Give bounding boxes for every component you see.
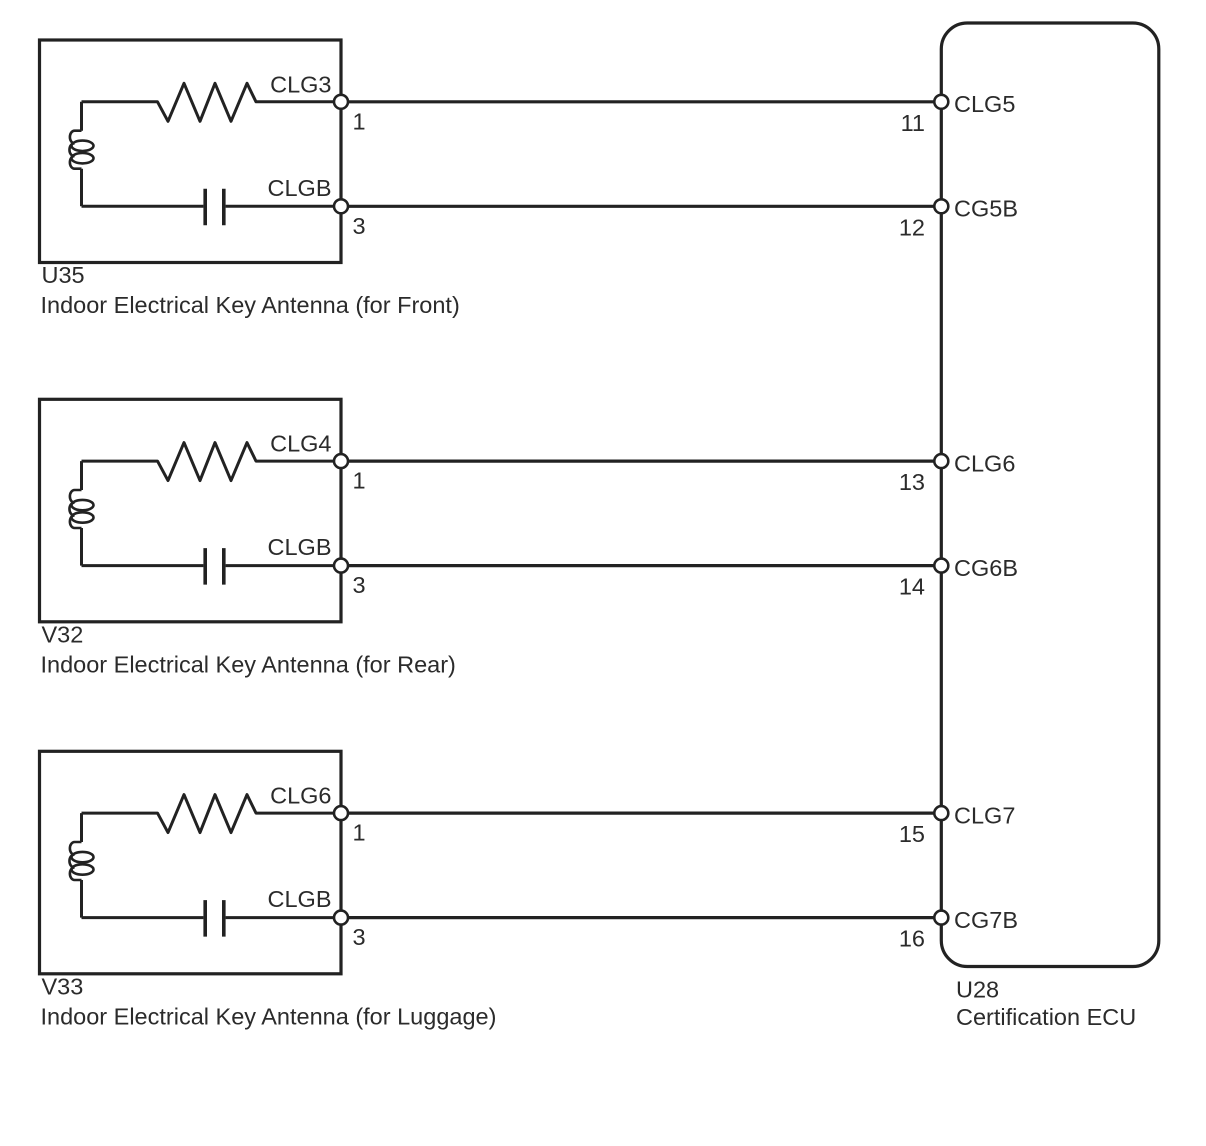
svg-text:13: 13 (899, 469, 925, 495)
terminal pin 3 of U35 (334, 199, 348, 213)
svg-text:3: 3 (353, 924, 366, 950)
capacitor in V33 (82, 916, 342, 919)
inductor in V32 (80, 461, 83, 565)
ECU pin 14 (934, 559, 948, 573)
inductor in V33 (80, 813, 83, 918)
svg-text:CLG6: CLG6 (270, 783, 331, 809)
antenna unit V32 box (40, 399, 342, 622)
svg-text:1: 1 (353, 468, 366, 494)
svg-text:1: 1 (353, 108, 366, 134)
svg-text:3: 3 (353, 213, 366, 239)
svg-text:1: 1 (353, 820, 366, 846)
svg-text:CG6B: CG6B (954, 555, 1018, 581)
antenna unit U35 box (40, 40, 342, 263)
wire CLG3 to ECU pin 11 (341, 100, 941, 103)
wire CLG4 to ECU pin 13 (341, 460, 941, 463)
wire CLG6 to ECU pin 15 (341, 811, 941, 814)
capacitor in V32 (82, 564, 342, 567)
svg-text:CG5B: CG5B (954, 196, 1018, 222)
svg-text:V32: V32 (42, 621, 84, 647)
svg-text:CLG5: CLG5 (954, 91, 1015, 117)
ECU pin 12 (934, 199, 948, 213)
terminal pin 1 of U35 (334, 95, 348, 109)
ECU pin 15 (934, 806, 948, 820)
svg-text:CLGB: CLGB (268, 886, 332, 912)
ECU pin 13 (934, 454, 948, 468)
svg-text:Indoor Electrical Key Antenna: Indoor Electrical Key Antenna (for Front… (41, 292, 460, 318)
ECU pin 16 (934, 911, 948, 925)
wire CLGB to ECU pin 12 (341, 205, 941, 208)
svg-text:CLG4: CLG4 (270, 431, 331, 457)
inductor in U35 (80, 102, 83, 207)
resistor in U35 (82, 83, 342, 121)
svg-text:CG7B: CG7B (954, 907, 1018, 933)
ECU U28 box (941, 23, 1159, 967)
svg-text:CLG7: CLG7 (954, 802, 1015, 828)
svg-text:CLG6: CLG6 (954, 450, 1015, 476)
terminal pin 1 of V32 (334, 454, 348, 468)
antenna unit V33 box (40, 751, 342, 974)
svg-text:CLG3: CLG3 (270, 71, 331, 97)
svg-text:12: 12 (899, 214, 925, 240)
svg-text:CLGB: CLGB (268, 175, 332, 201)
svg-text:V33: V33 (42, 973, 84, 999)
terminal pin 3 of V33 (334, 911, 348, 925)
svg-text:Certification ECU: Certification ECU (956, 1004, 1136, 1030)
svg-text:Indoor Electrical Key Antenna: Indoor Electrical Key Antenna (for Lugga… (41, 1003, 497, 1029)
terminal pin 1 of V33 (334, 806, 348, 820)
svg-text:U28: U28 (956, 977, 999, 1003)
svg-text:CLGB: CLGB (268, 534, 332, 560)
wire CLGB to ECU pin 16 (341, 916, 941, 919)
ECU pin 11 (934, 95, 948, 109)
resistor in V32 (82, 443, 342, 481)
svg-text:Indoor Electrical Key Antenna: Indoor Electrical Key Antenna (for Rear) (41, 651, 456, 677)
capacitor in U35 (82, 205, 342, 208)
svg-text:3: 3 (353, 572, 366, 598)
svg-text:14: 14 (899, 574, 925, 600)
svg-text:16: 16 (899, 926, 925, 952)
resistor in V33 (82, 795, 342, 833)
svg-text:U35: U35 (42, 262, 85, 288)
wire CLGB to ECU pin 14 (341, 564, 941, 567)
svg-text:11: 11 (901, 110, 925, 136)
svg-text:15: 15 (899, 821, 925, 847)
terminal pin 3 of V32 (334, 559, 348, 573)
